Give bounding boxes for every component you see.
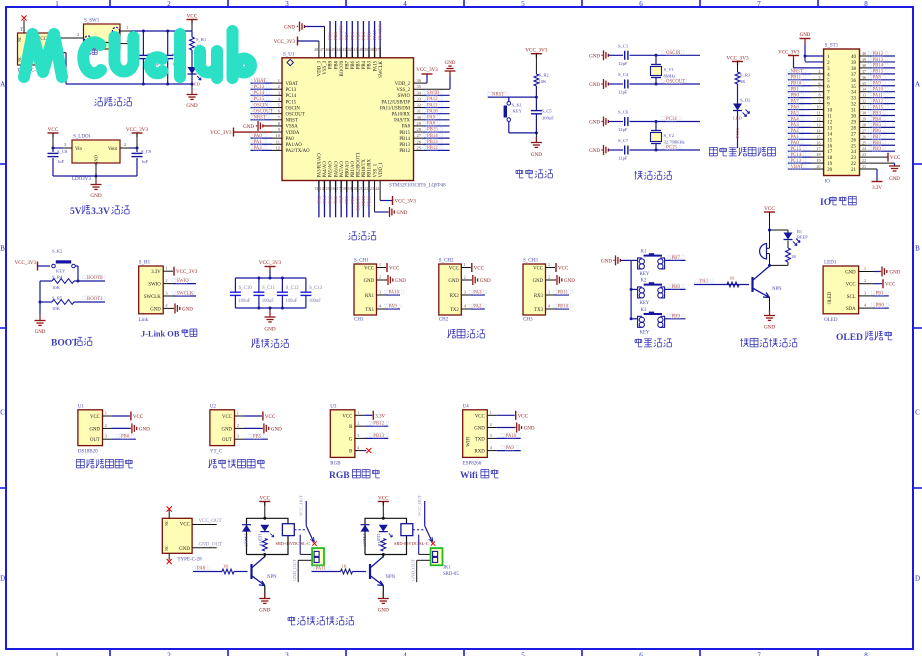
svg-text:RX1: RX1 <box>365 294 375 299</box>
svg-text:SWCLK: SWCLK <box>177 292 194 297</box>
svg-text:PB0: PB0 <box>344 195 349 204</box>
svg-text:12: 12 <box>276 145 280 150</box>
svg-text:4: 4 <box>357 445 359 450</box>
svg-text:PA9: PA9 <box>427 116 436 121</box>
svg-text:D: D <box>915 575 920 583</box>
svg-text:GND: GND <box>533 279 544 284</box>
svg-text:VCC: VCC <box>474 267 485 272</box>
svg-text:PA12/USB/DP: PA12/USB/DP <box>381 100 410 105</box>
wire LDO Vout to VCC_3V3 <box>120 147 139 150</box>
svg-text:VCC_OUT: VCC_OUT <box>417 495 422 516</box>
switch S_K1 KEY (reset key) <box>504 97 523 133</box>
svg-text:GND: GND <box>139 427 150 432</box>
svg-text:35: 35 <box>851 85 857 90</box>
svg-text:44: 44 <box>336 47 340 52</box>
svg-text:47: 47 <box>320 47 324 52</box>
wire SW1 to VCC rail <box>120 25 192 31</box>
svg-text:S_C6: S_C6 <box>618 110 629 115</box>
svg-text:OSCIN: OSCIN <box>666 51 681 56</box>
OLED pin4 net PB0 <box>859 302 889 308</box>
svg-text:G: G <box>349 437 353 442</box>
svg-text:S_U1: S_U1 <box>283 52 295 57</box>
svg-text:23: 23 <box>370 186 374 191</box>
U1 right pin wires with net labels SWIO..PB12 <box>414 90 450 151</box>
svg-text:NRST: NRST <box>492 92 504 97</box>
svg-text:VSS_2: VSS_2 <box>396 88 410 93</box>
svg-text:PB7: PB7 <box>672 256 681 261</box>
svg-text:16: 16 <box>827 144 833 149</box>
svg-text:1N4007: 1N4007 <box>244 534 249 547</box>
svg-text:GND: GND <box>589 121 600 126</box>
svg-text:GND: GND <box>364 279 375 284</box>
svg-text:PB11: PB11 <box>791 76 802 81</box>
U1 left pin wires PA0 PA1 PA2 <box>249 133 282 151</box>
svg-text:PA6: PA6 <box>333 195 338 203</box>
ground flag GND at U1 VSS_1 pin23 <box>375 181 408 218</box>
svg-text:1: 1 <box>548 262 550 267</box>
T2 bottom pin no-connect <box>167 553 172 564</box>
svg-text:2: 2 <box>124 142 126 147</box>
svg-text:S_C9: S_C9 <box>141 149 152 154</box>
svg-text:LDO3V3: LDO3V3 <box>72 177 91 182</box>
T1 top pin with no-connect X <box>21 15 26 33</box>
svg-text:VCC_3V3: VCC_3V3 <box>395 200 417 205</box>
svg-text:19: 19 <box>827 162 833 167</box>
svg-text:4: 4 <box>819 69 821 74</box>
caption 程序运行指示灯 <box>709 147 775 156</box>
svg-text:PB8: PB8 <box>334 60 339 69</box>
svg-text:11: 11 <box>276 139 280 144</box>
svg-text:Link: Link <box>139 318 149 323</box>
relay driver loop wire [relay 2] <box>365 517 407 556</box>
svg-text:1K: 1K <box>791 254 797 259</box>
capacitor S_C3 10uF <box>162 31 183 84</box>
net label PA11 base wire [relay 2] <box>311 564 347 572</box>
svg-text:10: 10 <box>817 105 821 110</box>
svg-text:PB7: PB7 <box>345 60 350 69</box>
svg-text:VDDA: VDDA <box>286 131 300 136</box>
svg-text:U4: U4 <box>463 404 470 409</box>
svg-text:PC14: PC14 <box>791 153 802 158</box>
U1 internal pin names <box>286 60 411 177</box>
filter bottom rail <box>235 307 306 310</box>
svg-text:GND: GND <box>524 427 535 432</box>
svg-text:20: 20 <box>817 164 821 169</box>
svg-text:4: 4 <box>464 304 466 309</box>
svg-text:24: 24 <box>862 146 866 151</box>
svg-text:1K: 1K <box>258 542 263 547</box>
power flag VCC_3V3 (BOOT) <box>15 261 50 271</box>
svg-text:6: 6 <box>639 652 643 656</box>
svg-text:SWIO: SWIO <box>427 91 440 96</box>
ground GND (reset) <box>531 133 542 158</box>
MCU U1 STM32F103C8T6 body <box>282 52 446 188</box>
U1 pin numbers <box>276 47 422 191</box>
svg-text:PA5/AO: PA5/AO <box>329 161 334 178</box>
svg-text:PB0/AO: PB0/AO <box>345 160 350 177</box>
svg-text:36: 36 <box>851 79 857 84</box>
filter top rail <box>235 277 306 280</box>
H1 pin1 wire to VCC_3V3 flag <box>163 266 198 276</box>
svg-text:S_CH2: S_CH2 <box>439 259 454 264</box>
svg-text:B: B <box>915 245 920 253</box>
net label GND_OUT wire <box>192 542 222 548</box>
svg-text:PA11: PA11 <box>427 103 438 108</box>
capacitor S_C4 12pF <box>618 72 700 95</box>
svg-text:KEY: KEY <box>640 301 650 306</box>
U1 top pin wires with net labels PB9..SWCLK <box>328 21 383 58</box>
svg-text:10: 10 <box>827 109 833 114</box>
resistor S_R2 10K <box>534 73 549 98</box>
svg-text:12pF: 12pF <box>618 90 628 95</box>
bottom rail of LDO circuit <box>53 175 137 178</box>
svg-text:K2: K2 <box>641 279 647 284</box>
svg-text:PB15: PB15 <box>399 131 410 136</box>
svg-text:PB13: PB13 <box>373 434 384 439</box>
svg-text:VCC: VCC <box>846 283 856 288</box>
svg-text:GND: GND <box>889 177 900 182</box>
svg-text:33: 33 <box>851 97 857 102</box>
svg-text:2: 2 <box>278 84 280 89</box>
svg-text:NPN: NPN <box>772 287 782 292</box>
svg-text:TX2: TX2 <box>450 308 459 313</box>
svg-text:VBAT: VBAT <box>286 82 299 87</box>
caption RGB灯模块 <box>329 469 380 481</box>
svg-text:VCC: VCC <box>342 414 352 419</box>
svg-text:14: 14 <box>827 132 833 137</box>
capacitor S_C1 12pF <box>618 43 700 66</box>
svg-text:GND: GND <box>764 325 775 331</box>
svg-text:PA5: PA5 <box>328 195 333 203</box>
svg-text:BOOT: BOOT <box>51 339 79 349</box>
module U3 RGB led module <box>330 404 389 466</box>
svg-text:GND_OUT: GND_OUT <box>410 559 415 581</box>
ground GND (filter) <box>264 308 275 333</box>
capacitor S_C2 100nF <box>138 31 160 84</box>
svg-text:PA0: PA0 <box>286 137 295 142</box>
resistor S_R5 10K <box>40 296 74 312</box>
svg-text:S_ST1: S_ST1 <box>825 44 839 49</box>
relay switch contact with dashed actuator [relay 2] <box>413 495 435 555</box>
svg-text:17: 17 <box>817 146 821 151</box>
svg-text:PB3: PB3 <box>368 60 373 69</box>
svg-text:18: 18 <box>342 186 346 191</box>
svg-text:VCC: VCC <box>518 414 529 419</box>
svg-text:SWIO: SWIO <box>148 283 161 288</box>
svg-text:13: 13 <box>817 122 821 127</box>
connector T2 TYPE-C-2P (relay power) <box>162 518 202 562</box>
svg-text:PA10/RX: PA10/RX <box>392 112 411 117</box>
connector T1 TYPE-C-2P <box>17 28 49 74</box>
svg-text:23: 23 <box>851 156 857 161</box>
power flag VCC_3V3 at U1 VDDA pin9 <box>210 128 282 137</box>
svg-text:TX1: TX1 <box>365 308 374 313</box>
svg-text:T1: T1 <box>20 28 26 33</box>
svg-text:CH1: CH1 <box>354 318 364 323</box>
module U2 YT_C liquid trigger sensor <box>210 404 282 454</box>
svg-text:GND: GND <box>890 271 901 276</box>
svg-text:KEY: KEY <box>640 330 650 335</box>
diode D 1N4007 [relay 1] <box>242 525 251 547</box>
caption 按键电路 <box>635 338 671 347</box>
svg-text:2: 2 <box>167 652 171 656</box>
power flag VCC (LDO input) <box>48 127 59 148</box>
svg-text:PB3: PB3 <box>366 31 371 40</box>
svg-text:PC13: PC13 <box>254 85 265 90</box>
svg-text:19: 19 <box>817 158 821 163</box>
ground GND (relay) [relay 1] <box>259 586 270 614</box>
svg-text:PB10: PB10 <box>361 195 366 206</box>
svg-text:1: 1 <box>126 25 128 30</box>
svg-text:PA3: PA3 <box>473 291 482 296</box>
svg-text:NRST: NRST <box>791 70 803 75</box>
svg-text:BOOT0: BOOT0 <box>87 276 103 281</box>
svg-text:SWCLK: SWCLK <box>379 60 384 77</box>
svg-text:U3: U3 <box>330 404 337 409</box>
svg-text:1K: 1K <box>377 542 382 547</box>
svg-text:PA1: PA1 <box>254 140 263 145</box>
svg-text:4: 4 <box>548 304 550 309</box>
svg-text:BOOT1: BOOT1 <box>355 196 360 211</box>
power flag VCC_3V3 at S_ST1 pin3 <box>778 51 824 68</box>
svg-text:OLED: OLED <box>824 318 838 323</box>
svg-text:3: 3 <box>105 434 107 439</box>
net label NRST wire <box>488 91 538 99</box>
svg-text:PA10: PA10 <box>873 88 884 93</box>
svg-text:18: 18 <box>827 156 833 161</box>
svg-text:PB14: PB14 <box>873 64 884 69</box>
svg-text:PB10: PB10 <box>791 82 802 87</box>
svg-text:PA9: PA9 <box>389 305 398 310</box>
svg-text:1uF: 1uF <box>141 159 149 164</box>
svg-text:30: 30 <box>851 115 857 120</box>
net label VCC_OUT wire <box>192 519 221 525</box>
svg-text:VCC: VCC <box>533 267 543 272</box>
svg-text:OLED: OLED <box>836 333 863 343</box>
svg-text:VCC: VCC <box>259 496 270 502</box>
svg-text:S_C4: S_C4 <box>618 72 629 77</box>
crystal S_V1 8MHz <box>651 54 676 86</box>
svg-text:GND: GND <box>480 279 491 284</box>
svg-text:28: 28 <box>851 126 857 131</box>
svg-text:39: 39 <box>862 57 866 62</box>
svg-text:STM32F103C8T6_LQFP48: STM32F103C8T6_LQFP48 <box>389 184 446 189</box>
svg-text:GND_OUT: GND_OUT <box>199 542 223 547</box>
svg-text:GND_OUT: GND_OUT <box>292 559 297 581</box>
net label PC15 <box>662 144 682 150</box>
svg-text:PB9: PB9 <box>672 314 681 319</box>
svg-text:PA3: PA3 <box>791 123 800 128</box>
svg-text:GND: GND <box>264 327 275 333</box>
svg-text:13: 13 <box>827 126 833 131</box>
svg-text:31: 31 <box>417 109 421 114</box>
svg-text:PA4: PA4 <box>791 117 800 122</box>
svg-text:VDD_2: VDD_2 <box>395 82 411 87</box>
svg-text:PB1: PB1 <box>350 196 355 204</box>
svg-text:CH2: CH2 <box>439 318 449 323</box>
svg-text:SCL: SCL <box>847 295 856 300</box>
svg-text:PB6: PB6 <box>873 129 882 134</box>
svg-text:10K: 10K <box>52 306 61 311</box>
svg-text:5: 5 <box>819 75 821 80</box>
svg-text:34: 34 <box>862 87 866 92</box>
svg-text:PB3: PB3 <box>873 111 882 116</box>
svg-text:LED: LED <box>376 534 381 542</box>
svg-text:2: 2 <box>77 32 79 37</box>
svg-text:SRD-05VDC-SL-C: SRD-05VDC-SL-C <box>394 541 429 546</box>
caption IO拓展口 <box>820 196 856 208</box>
capacitor S_C9 10uF <box>132 148 152 176</box>
svg-text:PB10: PB10 <box>558 305 569 310</box>
caption 继电器控制电路 <box>288 616 353 625</box>
svg-text:32: 32 <box>417 103 421 108</box>
svg-text:PA4/AO: PA4/AO <box>323 161 328 178</box>
svg-text:RXD: RXD <box>475 450 486 455</box>
svg-text:PC13: PC13 <box>735 127 740 138</box>
regulator S_LDO1 LDO3V3 <box>64 135 126 183</box>
ground GND (alarm) <box>764 298 775 331</box>
svg-text:PA2: PA2 <box>254 146 263 151</box>
svg-text:U2: U2 <box>210 404 217 409</box>
svg-text:38: 38 <box>370 47 374 52</box>
svg-text:1: 1 <box>166 266 168 271</box>
svg-text:SRD-05: SRD-05 <box>443 572 459 577</box>
svg-text:36: 36 <box>862 75 866 80</box>
net label BOOT0 wire <box>78 275 105 281</box>
svg-text:PA15: PA15 <box>373 60 378 71</box>
svg-text:32: 32 <box>851 103 857 108</box>
svg-text:15: 15 <box>817 134 821 139</box>
svg-text:4: 4 <box>166 303 168 308</box>
svg-text:VCC: VCC <box>222 415 232 420</box>
wire K2 to BOOT0 node <box>75 266 79 283</box>
svg-text:PC15: PC15 <box>666 146 677 151</box>
svg-text:5: 5 <box>521 0 525 8</box>
svg-text:RX2: RX2 <box>450 294 460 299</box>
svg-text:40: 40 <box>359 47 363 52</box>
svg-text:GND: GND <box>89 427 100 432</box>
OLED pin3 net PB1 <box>859 290 889 296</box>
svg-text:PA0: PA0 <box>791 141 800 146</box>
caption 滤波电路 <box>251 339 288 348</box>
svg-text:1: 1 <box>379 262 381 267</box>
svg-text:S_C5: S_C5 <box>542 109 553 114</box>
ground GND of power circuit <box>186 84 197 109</box>
svg-text:VCC: VCC <box>133 415 144 420</box>
svg-text:NPN: NPN <box>386 575 396 580</box>
svg-text:VCC: VCC <box>558 267 569 272</box>
svg-text:OUT: OUT <box>222 438 232 443</box>
resistor 1K (relay led) [relay 1] <box>258 539 267 552</box>
svg-text:LED: LED <box>257 534 262 542</box>
svg-text:28: 28 <box>862 122 866 127</box>
svg-text:S_C13: S_C13 <box>309 286 323 291</box>
power flag VCC_3V3 at U1 VDD_1 pin24 <box>380 181 416 206</box>
ground flag GND at S_C1 <box>589 50 623 60</box>
svg-text:PA9: PA9 <box>506 446 515 451</box>
H1 pin2 net SWIO <box>163 278 196 284</box>
capacitor S_C7 12pF <box>618 138 700 161</box>
svg-text:OSCOUT: OSCOUT <box>666 80 685 85</box>
svg-text:GND: GND <box>35 330 46 335</box>
diode D 1N4007 [relay 2] <box>361 525 370 547</box>
svg-text:22: 22 <box>862 158 866 163</box>
svg-text:2: 2 <box>166 278 168 283</box>
svg-text:PB11: PB11 <box>558 291 569 296</box>
svg-text:VBAT: VBAT <box>791 165 804 170</box>
caption 液体触发模块 <box>208 459 264 468</box>
svg-text:S_V1: S_V1 <box>664 67 675 72</box>
svg-text:VCC_3V3: VCC_3V3 <box>176 270 198 275</box>
svg-text:12pF: 12pF <box>618 156 628 161</box>
svg-text:4: 4 <box>864 303 866 308</box>
svg-text:PA4: PA4 <box>322 195 327 203</box>
svg-text:SDA: SDA <box>846 307 856 312</box>
svg-text:RX3: RX3 <box>534 294 544 299</box>
svg-text:3.3V: 3.3V <box>375 414 385 419</box>
svg-text:VCC_3V3: VCC_3V3 <box>210 131 232 136</box>
svg-text:18: 18 <box>817 152 821 157</box>
svg-text:VCC: VCC <box>389 267 400 272</box>
ground flag GND at S_C6 <box>589 117 623 127</box>
svg-text:2: 2 <box>379 275 381 280</box>
svg-text:41: 41 <box>353 47 357 52</box>
svg-text:PB12: PB12 <box>373 422 384 427</box>
svg-text:GND: GND <box>395 279 406 284</box>
svg-text:PC15: PC15 <box>254 97 265 102</box>
caption 5V转3.3V电路 <box>70 205 129 217</box>
OLED pin2 power VCC <box>859 278 896 288</box>
svg-text:S_C7: S_C7 <box>618 138 629 143</box>
svg-text:5: 5 <box>521 652 525 656</box>
power flag VCC <box>187 14 198 32</box>
svg-text:22: 22 <box>364 186 368 191</box>
svg-text:PB7: PB7 <box>344 31 349 40</box>
H1 pin4 ground GND <box>163 303 193 314</box>
svg-text:PB0: PB0 <box>876 304 885 309</box>
svg-text:GND: GND <box>474 427 485 432</box>
module U1 DS18B20 temperature sensor <box>78 404 150 454</box>
svg-text:S_C8: S_C8 <box>57 149 68 154</box>
svg-text:VCC: VCC <box>48 127 59 133</box>
ground GND at S_ST1 pin22 <box>860 158 901 182</box>
connector JK relay output [relay 1] <box>292 548 324 582</box>
svg-text:11: 11 <box>827 115 832 120</box>
svg-text:VCC_OUT: VCC_OUT <box>299 495 304 516</box>
svg-text:VCC: VCC <box>187 14 198 20</box>
svg-text:3: 3 <box>464 290 466 295</box>
LED D relay indicator [relay 2] <box>376 525 393 542</box>
svg-text:PB13: PB13 <box>873 58 884 63</box>
svg-text:IO: IO <box>825 180 831 185</box>
svg-text:8: 8 <box>864 0 868 8</box>
svg-text:16: 16 <box>817 140 821 145</box>
svg-text:PB6: PB6 <box>351 60 356 69</box>
ground flag GND at S_C7 <box>589 145 623 155</box>
svg-text:S_LDO1: S_LDO1 <box>73 135 92 140</box>
svg-text:GND: GND <box>564 279 575 284</box>
svg-text:VCC_3V3: VCC_3V3 <box>126 127 149 133</box>
svg-text:38: 38 <box>851 67 857 72</box>
resistor S_R1 1K <box>190 31 207 50</box>
caption 温度检测模块 <box>76 459 132 468</box>
svg-text:100uF: 100uF <box>285 299 298 304</box>
resistor S_R3 1K <box>735 72 751 84</box>
svg-text:3: 3 <box>548 290 550 295</box>
svg-text:GND: GND <box>186 103 197 109</box>
svg-text:15: 15 <box>827 138 833 143</box>
svg-text:PB1: PB1 <box>791 88 800 93</box>
